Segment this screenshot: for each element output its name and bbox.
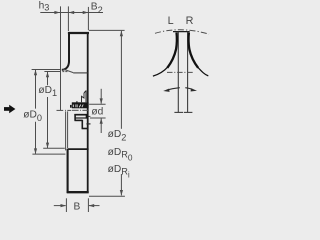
detail view: pitch centerline (dash-dot)	[167, 71, 194, 73]
rim top section: top edge	[68, 32, 89, 34]
hidden line dashes under flange	[62, 71, 64, 73]
node: B2 arrowhead left	[69, 11, 75, 14]
axis centerline (dash-dot)	[57, 109, 64, 111]
dimension oD0: line upper segment	[35, 70, 37, 109]
hub lower block: bottom edge	[82, 128, 88, 130]
hub lower block: bore bottom line	[75, 117, 86, 119]
rim bottom section: bottom edge	[67, 191, 89, 193]
svg-text:B: B	[74, 202, 81, 213]
detail view: left rope line	[177, 32, 179, 113]
rim inner cone diagonal	[63, 69, 74, 73]
node: od arrowhead up	[100, 118, 103, 124]
barrel tick right of web upper	[89, 115, 91, 117]
groove marks above hub on web	[85, 90, 87, 102]
svg-text:R: R	[186, 15, 194, 27]
rim bottom section: inner surface	[68, 148, 89, 150]
node: B arrowhead right	[61, 204, 67, 207]
node: B arrowhead left	[89, 204, 95, 207]
dimension oD2: top extension line	[89, 29, 125, 31]
hub lower block: filled corner	[86, 114, 88, 118]
hub lower block: left face	[74, 114, 76, 121]
dimension oD1: line upper segment	[47, 72, 49, 86]
dimension od: upper line	[100, 89, 102, 104]
web plate left line	[65, 111, 67, 150]
wire: flange outer face / h3 extension line	[60, 6, 62, 110]
detail view: left direction arrow	[167, 88, 180, 91]
dimension B: left extension line	[65, 198, 67, 212]
dimension od: bottom extension line	[90, 117, 106, 119]
detail view: right rope end crossbar	[184, 111, 193, 113]
hub upper band (hatched)	[72, 102, 89, 108]
dimension od: top extension line	[89, 103, 106, 105]
dimension od: lower line	[100, 118, 102, 133]
web plate right line	[67, 111, 69, 148]
detail view: right direction arrow	[185, 88, 193, 90]
svg-text:ød: ød	[91, 106, 103, 117]
hub lower block: top edge	[74, 114, 87, 116]
detail view: flange tip line	[173, 31, 190, 33]
node: od arrowhead down	[100, 98, 103, 104]
wire: rim left face extension line	[67, 6, 69, 31]
dimension B: left arrow line	[54, 205, 66, 207]
node: oD1 arrowhead down	[46, 143, 49, 149]
detail view: right rope line	[187, 32, 189, 113]
node: h3 arrowhead right	[54, 11, 60, 14]
rim inner surface top	[73, 72, 87, 74]
detail view: dash-dot arc on top	[155, 30, 209, 34]
dimension oD2: line lower segment	[120, 174, 122, 195]
dimension oD2: line upper segment	[120, 31, 122, 129]
detail view: left bell curve	[167, 33, 177, 68]
dimension oD0: top extension line	[32, 69, 61, 71]
rim bottom section: left face	[67, 149, 69, 193]
node: B2 arrowhead right	[83, 11, 89, 14]
dimension oD0: line lower segment	[35, 122, 37, 154]
node: oD0 arrowhead up	[34, 70, 37, 76]
dimension oD0: bottom extension line	[32, 153, 65, 155]
svg-text:h3: h3	[39, 0, 50, 12]
wire: h3/B2 dimension line	[40, 12, 103, 14]
barrel tick right of web lower	[86, 123, 90, 125]
rim right face (full height)	[87, 32, 89, 193]
node: oD0 arrowhead down	[34, 148, 37, 154]
dimension B: right arrow line	[89, 205, 100, 207]
pointer arrow (solid, at left)	[4, 107, 9, 111]
dimension B: right extension line	[87, 198, 89, 212]
node: oD2 arrowhead down	[120, 190, 123, 196]
dimension oD1: bottom extension line	[43, 147, 65, 149]
detail view: left rope end crossbar	[174, 111, 183, 113]
node: oD2 arrowhead up	[120, 31, 123, 37]
dimension oD1: line lower segment	[47, 97, 49, 148]
rim top section: flange fillet	[62, 62, 69, 70]
hub lower block: step horizontal	[75, 119, 83, 121]
dimension oD1: top extension line	[44, 71, 60, 73]
svg-text:L: L	[168, 15, 174, 27]
hub lower block: step vertical	[81, 120, 83, 129]
detail view: right bell curve	[189, 33, 199, 68]
wire: B2 right extension line	[87, 7, 89, 30]
node: oD1 arrowhead up	[46, 72, 49, 78]
rim top section: left face	[68, 32, 70, 63]
hub stub above band	[76, 101, 78, 103]
dimension oD2: bottom extension line	[89, 195, 125, 197]
